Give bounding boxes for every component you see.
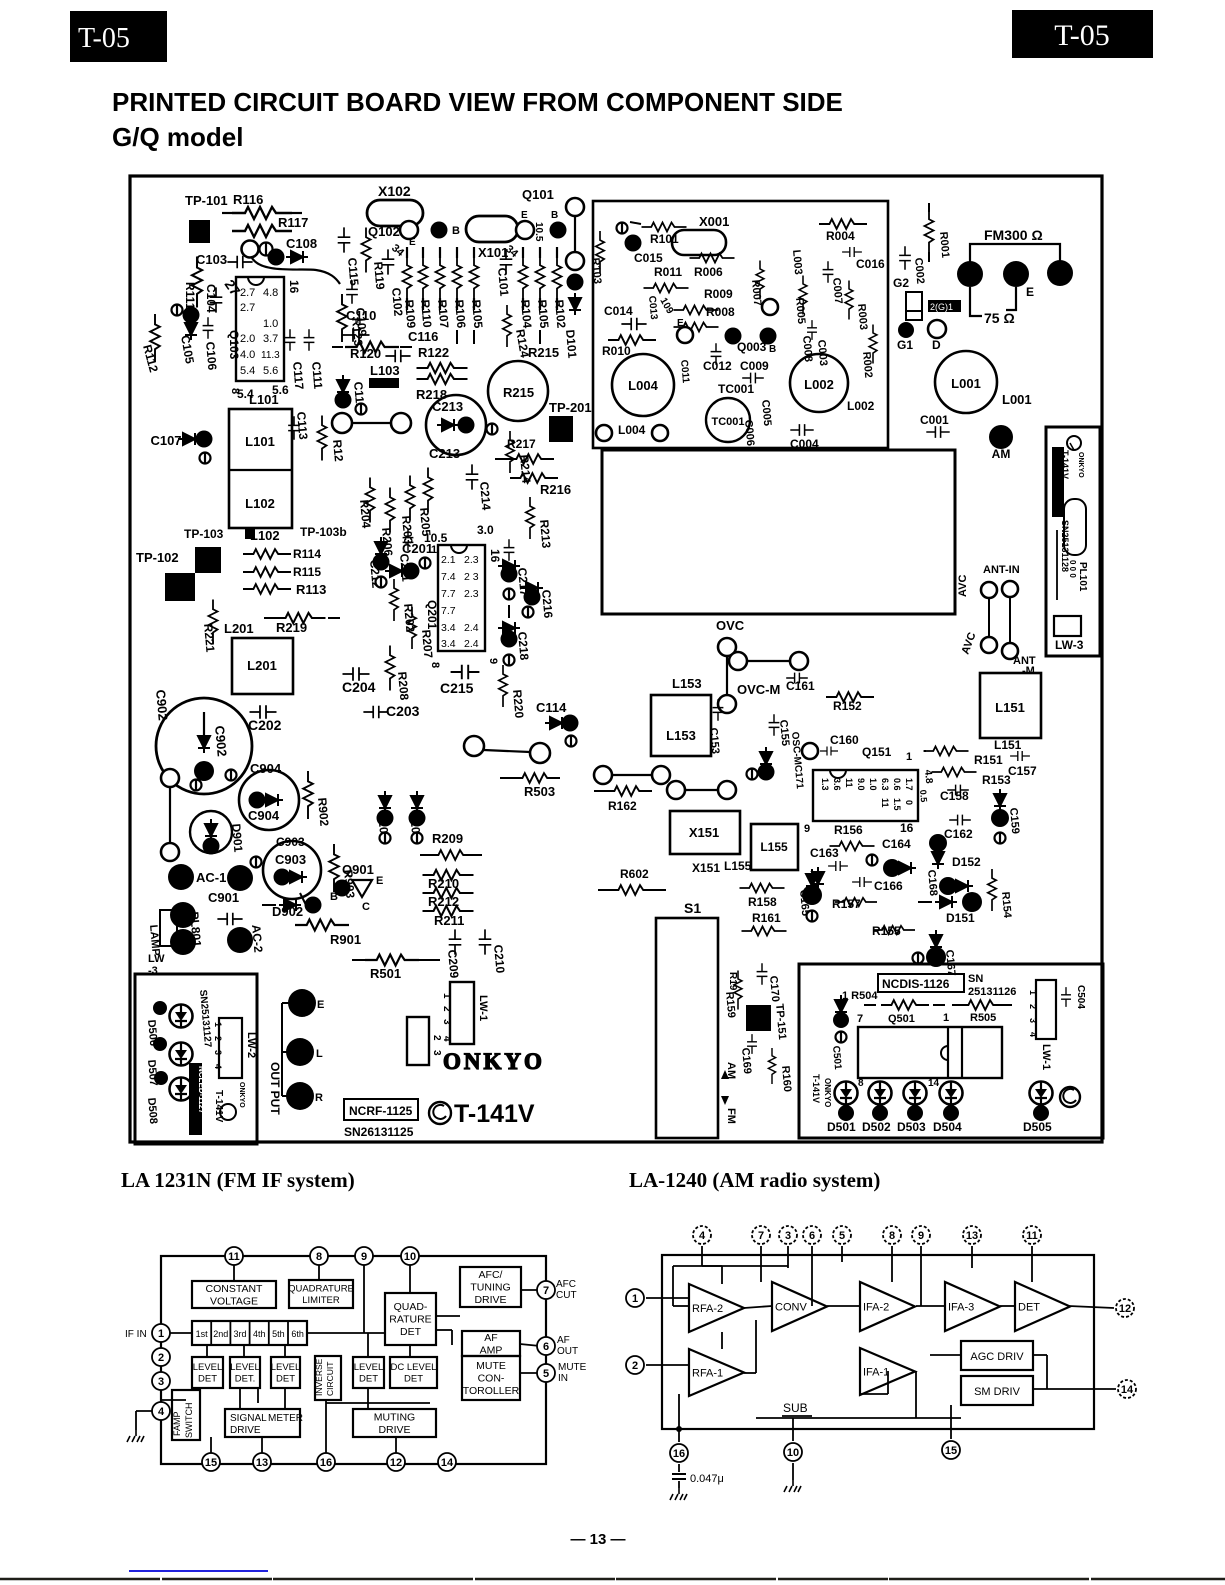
capacitor C165 bbox=[802, 885, 822, 905]
svg-text:7: 7 bbox=[857, 1013, 863, 1025]
svg-text:CONV: CONV bbox=[775, 1302, 807, 1314]
vertical caps C013 C011 C010 bbox=[699, 299, 701, 301]
svg-text:15: 15 bbox=[945, 1445, 957, 1457]
svg-text:LEVEL: LEVEL bbox=[193, 1362, 223, 1373]
svg-text:D101: D101 bbox=[563, 329, 579, 359]
svg-text:D901: D901 bbox=[229, 823, 245, 853]
capacitor C204 bbox=[343, 667, 370, 681]
svg-text:E: E bbox=[409, 237, 416, 248]
svg-text:0.5: 0.5 bbox=[918, 789, 929, 802]
svg-text:RFA-2: RFA-2 bbox=[692, 1303, 723, 1315]
resistor R115 bbox=[243, 567, 291, 577]
node B dot bbox=[431, 222, 448, 239]
svg-text:R210: R210 bbox=[428, 876, 459, 891]
resistor R221 bbox=[209, 600, 218, 645]
resistor R154 bbox=[988, 869, 996, 911]
capacitor C168 bbox=[929, 834, 947, 852]
resistor R117 bbox=[232, 225, 292, 237]
svg-text:TC001: TC001 bbox=[711, 416, 744, 428]
svg-text:6: 6 bbox=[543, 1341, 549, 1353]
svg-text:D505: D505 bbox=[1023, 1120, 1052, 1134]
coil L155 bbox=[751, 824, 798, 870]
svg-text:C107: C107 bbox=[150, 433, 181, 448]
svg-text:C004: C004 bbox=[790, 437, 819, 451]
LA1240 pins bottom bbox=[670, 1444, 688, 1462]
resistor R505 bbox=[952, 1004, 964, 1006]
svg-text:C210: C210 bbox=[491, 944, 507, 974]
svg-text:B: B bbox=[330, 891, 338, 903]
svg-text:X151: X151 bbox=[689, 825, 719, 840]
svg-text:13: 13 bbox=[256, 1457, 268, 1469]
svg-text:SN25131127: SN25131127 bbox=[197, 989, 213, 1048]
svg-text:Q101: Q101 bbox=[522, 187, 554, 202]
svg-text:5: 5 bbox=[543, 1368, 549, 1380]
svg-text:11: 11 bbox=[228, 1251, 240, 1263]
svg-text:DET: DET bbox=[359, 1374, 378, 1385]
svg-text:C159: C159 bbox=[1007, 807, 1021, 834]
svg-text:R007: R007 bbox=[749, 279, 763, 306]
svg-text:R002: R002 bbox=[860, 351, 874, 378]
pad G1 bbox=[898, 322, 914, 338]
svg-text:OVC-M: OVC-M bbox=[737, 682, 780, 697]
svg-text:LEVEL: LEVEL bbox=[354, 1362, 384, 1373]
svg-text:C215: C215 bbox=[440, 680, 474, 696]
svg-text:L153: L153 bbox=[672, 676, 702, 691]
svg-text:R12: R12 bbox=[330, 439, 346, 462]
capacitor C162 bbox=[949, 815, 971, 826]
svg-text:C168: C168 bbox=[925, 869, 939, 896]
box level det 1 bbox=[192, 1357, 223, 1388]
resistor R902 bbox=[303, 771, 313, 819]
LA1231N pins right bbox=[537, 1281, 555, 1299]
svg-text:C110: C110 bbox=[346, 308, 376, 323]
svg-text:SN: SN bbox=[968, 973, 983, 985]
svg-text:AMP: AMP bbox=[480, 1344, 503, 1356]
svg-text:C902: C902 bbox=[212, 725, 230, 757]
header bar right bbox=[1012, 10, 1153, 58]
svg-text:B: B bbox=[551, 210, 558, 221]
svg-text:ONKYO: ONKYO bbox=[1077, 452, 1084, 478]
svg-text:IFA-1: IFA-1 bbox=[863, 1367, 889, 1379]
svg-text:T-05: T-05 bbox=[1054, 19, 1110, 52]
svg-text:C158: C158 bbox=[940, 789, 969, 803]
svg-text:G/Q model: G/Q model bbox=[112, 122, 243, 152]
svg-text:Q003: Q003 bbox=[737, 340, 767, 354]
svg-text:C501: C501 bbox=[830, 1045, 843, 1070]
capacitor C167 bbox=[926, 947, 946, 967]
svg-text:C901: C901 bbox=[208, 890, 239, 905]
svg-text:C105: C105 bbox=[178, 334, 197, 365]
svg-text:C203: C203 bbox=[386, 703, 420, 719]
svg-text:DET.: DET. bbox=[235, 1374, 256, 1385]
svg-text:L102: L102 bbox=[245, 496, 275, 511]
resistor R001 bbox=[928, 203, 930, 212]
svg-text:IF IN: IF IN bbox=[125, 1329, 147, 1340]
LA1231N pins top bbox=[225, 1247, 243, 1265]
svg-text:1.0: 1.0 bbox=[263, 318, 278, 330]
svg-text:16: 16 bbox=[287, 280, 301, 294]
capacitor C504 bbox=[1061, 987, 1071, 1007]
svg-text:C153: C153 bbox=[707, 727, 721, 754]
svg-text:3: 3 bbox=[431, 1050, 442, 1056]
wires LA1231N bbox=[167, 1332, 192, 1334]
svg-text:DET: DET bbox=[276, 1374, 295, 1385]
svg-text:TOROLLER: TOROLLER bbox=[463, 1385, 520, 1397]
svg-text:R602: R602 bbox=[620, 867, 649, 881]
svg-text:VOLTAGE: VOLTAGE bbox=[210, 1295, 258, 1307]
svg-text:L002: L002 bbox=[847, 399, 875, 413]
svg-text:C160: C160 bbox=[830, 733, 859, 747]
amp IFA-3 bbox=[945, 1282, 1000, 1331]
svg-text:2.0: 2.0 bbox=[240, 333, 255, 345]
capacitor C211 bbox=[403, 529, 414, 551]
svg-text:E: E bbox=[1026, 285, 1034, 299]
display window rectangle bbox=[602, 450, 955, 614]
svg-text:3rd: 3rd bbox=[233, 1329, 246, 1339]
amp CONV bbox=[772, 1282, 827, 1331]
svg-text:R101: R101 bbox=[650, 232, 679, 246]
svg-text:2.4: 2.4 bbox=[464, 638, 479, 650]
svg-text:Q151: Q151 bbox=[862, 745, 892, 759]
svg-text:S1: S1 bbox=[684, 900, 701, 916]
amp RFA-2 bbox=[689, 1284, 744, 1332]
svg-text:L151: L151 bbox=[995, 700, 1025, 715]
svg-text:L: L bbox=[316, 1048, 323, 1060]
svg-text:C108: C108 bbox=[286, 236, 317, 251]
box mute controller bbox=[462, 1356, 520, 1400]
svg-text:R220: R220 bbox=[510, 689, 526, 719]
svg-text:16: 16 bbox=[320, 1457, 332, 1469]
pad dot bbox=[227, 927, 253, 953]
svg-text:SIGNAL: SIGNAL bbox=[230, 1413, 267, 1424]
svg-text:SN26131125: SN26131125 bbox=[344, 1125, 414, 1139]
capacitor C213 big bbox=[426, 395, 486, 455]
svg-text:QUAD-: QUAD- bbox=[394, 1301, 428, 1313]
svg-text:5: 5 bbox=[839, 1230, 845, 1242]
svg-text:AF: AF bbox=[557, 1335, 570, 1346]
svg-text:DET: DET bbox=[1018, 1302, 1040, 1314]
resistor R208 bbox=[386, 646, 395, 691]
resistor R202b bbox=[390, 579, 398, 621]
svg-text:G1: G1 bbox=[897, 338, 913, 352]
LA1231N pins left bbox=[152, 1324, 170, 1342]
svg-text:R159: R159 bbox=[723, 991, 737, 1018]
svg-text:IFA-3: IFA-3 bbox=[948, 1302, 974, 1314]
LA1240 wires bbox=[701, 1246, 703, 1266]
capacitor C012 bbox=[711, 343, 722, 365]
amp RFA-1 bbox=[689, 1349, 744, 1396]
svg-text:34: 34 bbox=[389, 242, 407, 260]
svg-text:R004: R004 bbox=[826, 229, 855, 243]
svg-text:R153: R153 bbox=[982, 773, 1011, 787]
svg-text:TP-201: TP-201 bbox=[549, 400, 592, 415]
svg-text:PL101: PL101 bbox=[1077, 562, 1088, 592]
svg-text:SWITCH: SWITCH bbox=[184, 1403, 194, 1439]
resistor R901 bbox=[295, 920, 349, 931]
resistor R121 bbox=[318, 416, 327, 461]
svg-text:R011: R011 bbox=[654, 265, 682, 279]
svg-text:G2: G2 bbox=[893, 276, 909, 290]
junction circle top right bbox=[566, 198, 584, 216]
svg-text:AGC DRIV: AGC DRIV bbox=[970, 1351, 1024, 1363]
svg-text:ONKYO: ONKYO bbox=[443, 1049, 545, 1074]
svg-text:OUT PUT: OUT PUT bbox=[268, 1062, 282, 1115]
svg-text:R215: R215 bbox=[528, 345, 559, 360]
node junction circles bbox=[242, 241, 259, 258]
coil L101/L102 box bbox=[229, 409, 292, 528]
coil L004 bbox=[612, 354, 674, 416]
svg-text:R152: R152 bbox=[833, 699, 862, 713]
diode D901 circle bbox=[190, 811, 232, 853]
svg-text:D152: D152 bbox=[952, 855, 981, 869]
capacitor C210 bbox=[479, 929, 492, 954]
svg-text:Q901: Q901 bbox=[342, 862, 374, 877]
svg-text:16: 16 bbox=[673, 1448, 685, 1460]
svg-text:C: C bbox=[362, 901, 370, 913]
AM tuner section box bbox=[593, 201, 888, 448]
capacitor C218 bbox=[508, 605, 510, 618]
AC-1 pad bbox=[168, 864, 194, 890]
svg-text:C166: C166 bbox=[874, 879, 903, 893]
svg-text:R114: R114 bbox=[293, 547, 321, 561]
resistor R004 bbox=[819, 219, 867, 229]
logo circle R LW2 bbox=[220, 1104, 236, 1120]
svg-text:CUT: CUT bbox=[556, 1290, 577, 1301]
resistor R501 bbox=[352, 959, 372, 961]
capacitor C115 bbox=[338, 227, 351, 252]
svg-text:3.4: 3.4 bbox=[441, 638, 456, 650]
svg-text:R107: R107 bbox=[435, 299, 451, 329]
resistor R155 bbox=[873, 926, 915, 934]
svg-text:TP-103b: TP-103b bbox=[300, 525, 347, 539]
svg-text:0.047μ: 0.047μ bbox=[690, 1473, 724, 1485]
capacitor C109 bbox=[346, 280, 358, 303]
svg-text:R161: R161 bbox=[752, 911, 781, 925]
svg-text:R209: R209 bbox=[432, 831, 463, 846]
svg-text:LW-3: LW-3 bbox=[1055, 638, 1084, 652]
svg-text:CIRCUIT: CIRCUIT bbox=[325, 1362, 335, 1396]
svg-text:ONKYO: ONKYO bbox=[823, 1078, 832, 1107]
svg-text:2.7: 2.7 bbox=[240, 302, 255, 314]
svg-text:6: 6 bbox=[809, 1230, 815, 1242]
svg-text:7.7: 7.7 bbox=[441, 588, 456, 600]
svg-text:TP-102: TP-102 bbox=[136, 550, 179, 565]
capacitor C212 bbox=[373, 554, 390, 571]
svg-text:C903: C903 bbox=[275, 852, 306, 867]
box afc tuning drive bbox=[460, 1267, 521, 1307]
svg-text:R006: R006 bbox=[694, 265, 723, 279]
svg-text:DRIVE: DRIVE bbox=[230, 1425, 261, 1436]
svg-text:R213: R213 bbox=[537, 519, 553, 549]
svg-text:R19: R19 bbox=[727, 972, 738, 991]
svg-text:C218: C218 bbox=[515, 631, 531, 661]
svg-text:AF: AF bbox=[484, 1332, 497, 1344]
svg-text:DET: DET bbox=[404, 1374, 423, 1385]
svg-text:16: 16 bbox=[488, 549, 502, 563]
svg-text:R160: R160 bbox=[779, 1065, 793, 1092]
svg-text:C005: C005 bbox=[759, 399, 773, 426]
svg-text:R103: R103 bbox=[589, 257, 603, 284]
resistor R202 bbox=[454, 669, 456, 671]
svg-text:TP-101: TP-101 bbox=[185, 193, 228, 208]
svg-text:L002: L002 bbox=[804, 377, 834, 392]
svg-text:2(G)1: 2(G)1 bbox=[930, 302, 953, 312]
capacitor C202 bbox=[250, 705, 277, 719]
IC Q201 value box bbox=[438, 545, 485, 651]
svg-text:Q102: Q102 bbox=[368, 224, 400, 239]
capacitor C158 bbox=[947, 785, 969, 796]
svg-text:D504: D504 bbox=[933, 1120, 962, 1134]
svg-text:-3: -3 bbox=[148, 965, 158, 977]
capacitor C169 bbox=[747, 1034, 757, 1054]
svg-text:R162: R162 bbox=[608, 799, 637, 813]
bottom-right display board box bbox=[799, 964, 1103, 1138]
capacitor C215 bbox=[451, 665, 480, 679]
svg-text:E: E bbox=[376, 875, 383, 887]
amp DET bbox=[1015, 1282, 1070, 1331]
svg-text:R106: R106 bbox=[452, 299, 468, 329]
svg-text:FM300 Ω: FM300 Ω bbox=[984, 227, 1043, 243]
junction circles left bbox=[161, 769, 179, 787]
resistor R157 bbox=[835, 898, 877, 906]
resistor R215 big circle bbox=[488, 361, 548, 421]
resistor R114 bbox=[243, 549, 291, 559]
wire right vertical bbox=[574, 216, 576, 252]
svg-text:R102: R102 bbox=[552, 299, 568, 329]
svg-text:R010: R010 bbox=[602, 344, 631, 358]
svg-text:L201: L201 bbox=[247, 658, 277, 673]
svg-text:9: 9 bbox=[487, 658, 499, 664]
capacitor C007 bbox=[823, 261, 834, 283]
LA1240 pins top bbox=[693, 1226, 711, 1244]
svg-text:C216: C216 bbox=[539, 589, 555, 619]
svg-text:LA-1240 (AM radio system): LA-1240 (AM radio system) bbox=[629, 1168, 880, 1192]
svg-text:AFC: AFC bbox=[556, 1279, 576, 1290]
svg-text:T-141V: T-141V bbox=[1060, 450, 1070, 479]
svg-text:8: 8 bbox=[429, 662, 441, 668]
label 2(G)1 black bbox=[928, 300, 961, 312]
capacitor C159 bbox=[994, 789, 1006, 811]
svg-text:R217: R217 bbox=[507, 437, 536, 451]
resistor R159 area bbox=[734, 971, 742, 1010]
svg-text:IFA-2: IFA-2 bbox=[863, 1302, 889, 1314]
right connector box bbox=[1046, 427, 1100, 656]
svg-text:C106: C106 bbox=[203, 341, 219, 371]
svg-text:11: 11 bbox=[844, 778, 854, 788]
svg-text:3.6: 3.6 bbox=[832, 778, 842, 791]
resistor R205 bbox=[424, 468, 433, 513]
svg-text:C001: C001 bbox=[920, 413, 949, 427]
resistor R113 bbox=[243, 584, 291, 594]
svg-text:R117: R117 bbox=[278, 215, 308, 230]
svg-text:R009: R009 bbox=[704, 287, 733, 301]
svg-text:SUB: SUB bbox=[783, 1401, 808, 1415]
box inverse circuit bbox=[315, 1356, 341, 1400]
coil L001 bbox=[935, 351, 997, 413]
capacitor C107 bbox=[178, 433, 200, 445]
test point TP-101 bbox=[189, 220, 210, 243]
resistor R220 bbox=[499, 665, 507, 707]
svg-text:1.5: 1.5 bbox=[892, 798, 902, 811]
svg-text:LIMITER: LIMITER bbox=[302, 1295, 340, 1306]
amp IFA-2 bbox=[860, 1282, 915, 1331]
svg-text:C006: C006 bbox=[742, 419, 756, 446]
resistor R005 bbox=[799, 276, 807, 315]
svg-text:7: 7 bbox=[543, 1285, 549, 1297]
svg-text:RATURE: RATURE bbox=[389, 1314, 431, 1326]
capacitor C016 bbox=[842, 247, 862, 257]
svg-text:C167: C167 bbox=[943, 949, 957, 976]
svg-text:L201: L201 bbox=[224, 621, 254, 636]
connector PL101 detail bbox=[1067, 436, 1081, 450]
svg-text:6.3: 6.3 bbox=[880, 778, 890, 791]
LA1240 pins sides bbox=[626, 1289, 644, 1307]
svg-text:R155: R155 bbox=[872, 924, 901, 938]
bottom-left LED board box bbox=[135, 974, 257, 1144]
LA1231N ground bbox=[127, 1430, 144, 1442]
svg-text:R158: R158 bbox=[748, 895, 777, 909]
svg-text:109: 109 bbox=[657, 296, 675, 316]
svg-text:C116: C116 bbox=[408, 329, 438, 344]
resistor R119 bbox=[362, 228, 371, 273]
svg-text:D501: D501 bbox=[827, 1120, 856, 1134]
svg-text:9: 9 bbox=[804, 823, 810, 835]
svg-text:R902: R902 bbox=[315, 797, 331, 827]
svg-text:FM: FM bbox=[725, 1108, 737, 1124]
capacitor C902 big circle bbox=[156, 698, 252, 794]
svg-text:LW-1: LW-1 bbox=[1040, 1044, 1052, 1070]
svg-text:R221: R221 bbox=[201, 623, 217, 653]
coil L201 box bbox=[232, 638, 293, 694]
box level det mid bbox=[353, 1357, 384, 1388]
LED D503 bbox=[904, 1081, 927, 1105]
svg-text:7.4: 7.4 bbox=[441, 571, 456, 583]
resistor R158 bbox=[740, 884, 785, 893]
capacitor C170 bbox=[757, 963, 768, 985]
box dc level det bbox=[390, 1357, 437, 1388]
svg-text:R208: R208 bbox=[395, 671, 411, 701]
svg-text:11: 11 bbox=[880, 798, 890, 808]
LED D504 bbox=[940, 1081, 963, 1105]
svg-text:2.1: 2.1 bbox=[441, 554, 456, 566]
capacitor C203 bbox=[363, 706, 388, 719]
svg-text:3.4: 3.4 bbox=[441, 622, 456, 634]
box level det 3 bbox=[271, 1357, 300, 1388]
svg-text:2: 2 bbox=[431, 1035, 442, 1041]
svg-text:E: E bbox=[521, 210, 528, 221]
svg-text:R105: R105 bbox=[535, 299, 551, 329]
svg-text:ONKYO: ONKYO bbox=[238, 1082, 245, 1108]
svg-text:C504: C504 bbox=[1075, 985, 1086, 1009]
svg-text:1st: 1st bbox=[196, 1329, 209, 1339]
box famp switch bbox=[172, 1390, 200, 1440]
svg-text:C162: C162 bbox=[944, 827, 973, 841]
coil L151 bbox=[980, 673, 1041, 738]
LA1240 frame bbox=[662, 1255, 1094, 1429]
svg-text:R157: R157 bbox=[832, 897, 861, 911]
box signal meter drive bbox=[225, 1409, 300, 1437]
svg-text:C169: C169 bbox=[739, 1047, 753, 1074]
svg-text:ANT-IN: ANT-IN bbox=[983, 564, 1020, 576]
svg-text:TUNING: TUNING bbox=[470, 1282, 510, 1294]
resistor R162 bbox=[594, 790, 606, 792]
svg-text:L003: L003 bbox=[790, 249, 804, 275]
svg-text:10: 10 bbox=[787, 1447, 799, 1459]
svg-text:5th: 5th bbox=[272, 1329, 285, 1339]
svg-text:L153: L153 bbox=[666, 728, 696, 743]
svg-text:3: 3 bbox=[158, 1376, 164, 1388]
crystal X151 box bbox=[670, 811, 740, 854]
